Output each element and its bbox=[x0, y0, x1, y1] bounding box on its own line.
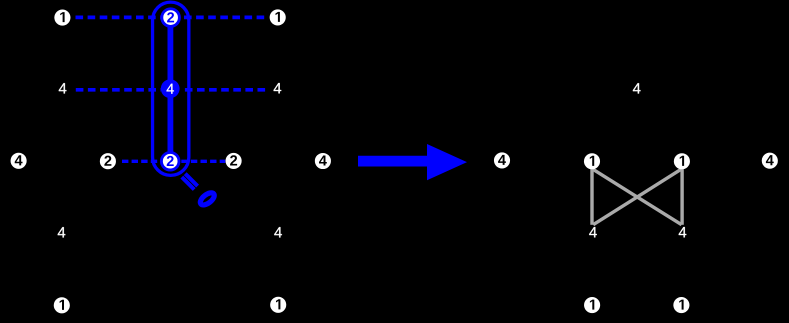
wire: gray edge right graph diagonal right-1 to left-4 bbox=[593, 169, 681, 225]
wire: double edge from group to loop 0 (lower line) bbox=[182, 177, 194, 189]
node 2 (left graph row3 right) bbox=[226, 153, 242, 169]
node 4 (right graph far-right) bbox=[762, 153, 778, 169]
node 1 (left graph top-right) bbox=[270, 9, 286, 25]
wire: solid vertical edge inside group (2-4-2) bbox=[167, 18, 173, 162]
label 4 (left graph row2 left) bbox=[59, 83, 67, 93]
label 4 (right graph row4 left) bbox=[589, 227, 597, 237]
wire: dashed edge row1 left (node 1 to group node 2) bbox=[76, 16, 161, 20]
node 1 (left graph top-left) bbox=[54, 10, 70, 26]
node 1 (right graph middle-right) bbox=[674, 153, 690, 169]
node 2 highlighted (left graph top-middle) bbox=[162, 9, 180, 27]
wire: dashed edge row2 right (group node 4 to label 4) bbox=[185, 88, 265, 92]
wire: double edge from group to loop 0 (upper line) bbox=[185, 174, 197, 186]
wire: dashed edge row3 left (node 2 to group node 2) bbox=[122, 160, 160, 163]
label 4 (left graph row4 right) bbox=[274, 227, 282, 237]
group outline (stadium around contracted vertices) bbox=[153, 2, 189, 175]
label 4 (left graph row2 right) bbox=[274, 83, 282, 93]
node 1 (left graph bottom-right) bbox=[270, 297, 286, 313]
node 4 highlighted solid (left graph row2 middle) bbox=[161, 79, 180, 98]
wire: gray edge right graph vertical right bbox=[680, 169, 683, 225]
wire: dashed edge row2 left (label 4 to group node 4) bbox=[76, 88, 161, 92]
loop label 0 (rotated oval) bbox=[198, 191, 216, 208]
label 4 (right graph top) bbox=[633, 83, 641, 93]
wire: gray edge right graph vertical left bbox=[590, 169, 593, 225]
arrow (contraction) bbox=[358, 144, 467, 180]
node 1 (right graph bottom-left) bbox=[584, 297, 600, 313]
node 4 (right graph far-left) bbox=[494, 152, 510, 168]
node 1 (right graph bottom-right) bbox=[673, 297, 689, 313]
wire: dashed edge row1 right (group node 2 to node 1) bbox=[184, 16, 264, 20]
node 2 (left graph row3 left) bbox=[100, 153, 116, 169]
wire: dashed edge row3 right (group node 2 to node 2) bbox=[181, 160, 225, 163]
label 4 (right graph row4 right) bbox=[679, 227, 687, 237]
node 2 highlighted (left graph row3 middle) bbox=[161, 152, 179, 170]
wire: gray edge right graph diagonal left-1 to right-4 bbox=[593, 169, 682, 225]
node 4 (left graph row3 far-left) bbox=[11, 153, 27, 169]
node 4 (left graph row3 far-right) bbox=[315, 153, 331, 169]
label 4 (left graph row4 left) bbox=[58, 227, 66, 237]
node 1 (left graph bottom-left) bbox=[54, 297, 70, 313]
node 1 (right graph middle-left) bbox=[584, 153, 600, 169]
